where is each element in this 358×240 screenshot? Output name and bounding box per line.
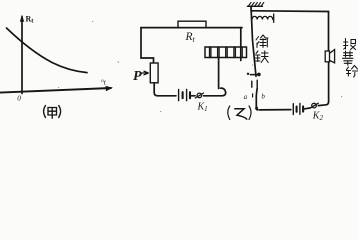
wire switch to right corner of bottom	[204, 88, 226, 96]
armature contact bar	[250, 74, 258, 76]
wire bottom of right loop	[260, 109, 291, 111]
upper coil lead	[240, 28, 242, 61]
svg-text:P: P	[133, 69, 142, 84]
contact blob	[257, 73, 261, 77]
wire contact to bottom of right loop	[256, 88, 258, 110]
svg-text:°t: °t	[101, 77, 107, 86]
rheostat box	[150, 63, 158, 83]
resistor Rt	[178, 21, 206, 27]
wire top of left loop	[141, 27, 242, 29]
scan speckles	[118, 62, 120, 63]
contact dot left	[247, 73, 249, 75]
small tick below contacts	[252, 94, 254, 97]
lower coil lead	[218, 58, 220, 89]
label 报警铃	[343, 39, 358, 78]
switch K2	[310, 103, 318, 108]
svg-text:0: 0	[17, 94, 21, 103]
corner blob	[255, 107, 258, 110]
switch K1	[195, 93, 203, 98]
wire battery to switch	[191, 95, 195, 97]
wire left side of left loop	[141, 28, 154, 63]
spring	[252, 16, 273, 19]
battery B1	[179, 90, 190, 101]
contact b post	[256, 80, 258, 88]
bell speaker	[325, 50, 334, 63]
electromagnet coil	[205, 47, 247, 58]
label 衔铁	[256, 35, 269, 63]
wire right side of right loop	[328, 12, 330, 103]
spring end post	[273, 14, 275, 22]
fixed support with hatching	[247, 2, 264, 6]
wire below rheostat	[154, 83, 176, 96]
label (乙)	[228, 106, 251, 120]
contact a post	[251, 81, 253, 87]
arrow P	[142, 71, 149, 75]
svg-text:a: a	[244, 93, 248, 101]
x-axis with arrow	[0, 88, 111, 93]
relay armature	[251, 6, 256, 76]
y-axis with arrow	[21, 17, 23, 94]
wire top of right loop	[251, 10, 329, 13]
battery B2	[293, 104, 303, 115]
svg-text:b: b	[261, 92, 265, 100]
wire switch K2 to corner	[318, 102, 328, 106]
Rt-t curve	[7, 28, 88, 73]
label (甲)	[44, 106, 61, 119]
wire battery to switch K2	[304, 108, 310, 109]
